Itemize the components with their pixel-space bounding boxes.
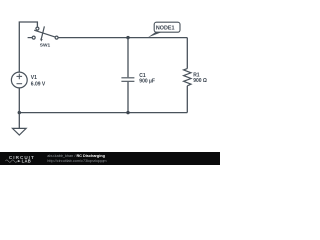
svg-text:http://circuitlab.com/c73kqnzk: http://circuitlab.com/c73kqnzkqqqm — [47, 159, 106, 163]
node NODE1 box — [154, 22, 180, 32]
resistor R1 bottom lead — [186, 86, 188, 113]
wire V1+ to SW1 throw1 — [19, 22, 37, 72]
footer bar — [0, 152, 220, 165]
switch SW1 — [28, 26, 58, 41]
junction dot at V1- / ground — [18, 111, 21, 114]
capacitor C1 top lead — [127, 38, 129, 78]
svg-text:abu.kabir_khan / RC Dischargin: abu.kabir_khan / RC Discharging — [47, 154, 105, 158]
svg-text:900 µF: 900 µF — [139, 79, 155, 85]
SW1 actuation arrow — [41, 26, 44, 39]
wire V1- to ground — [18, 88, 20, 129]
SW1 throw2 stub — [28, 37, 32, 39]
CircuitLab logo: arrow — [18, 160, 21, 162]
wire SW1 common to node1 top rail — [58, 37, 187, 39]
junction dot at C1 bottom — [126, 111, 129, 114]
SW1 throw1 terminal — [36, 27, 39, 30]
SW1 lever — [34, 30, 55, 37]
capacitor C1 plates — [121, 78, 134, 82]
svg-text:LAB: LAB — [22, 159, 32, 164]
CircuitLab logo: sine squiggle — [5, 160, 17, 162]
V1 plus sign — [17, 74, 23, 80]
resistor R1 top lead — [186, 38, 188, 69]
capacitor C1 bottom lead — [127, 82, 129, 113]
resistor R1 zigzag — [184, 69, 191, 86]
svg-text:NODE1: NODE1 — [156, 26, 175, 32]
svg-text:900 Ω: 900 Ω — [193, 78, 207, 84]
svg-text:6.09 V: 6.09 V — [31, 82, 46, 88]
SW1 common terminal — [55, 36, 58, 39]
ground symbol — [13, 128, 27, 135]
voltage source V1 body — [11, 72, 27, 88]
svg-text:V1: V1 — [31, 75, 37, 81]
junction dot at NODE1/C1 top — [126, 36, 129, 39]
bottom wire R1 to V1- — [19, 112, 187, 114]
SW1 throw2 terminal — [32, 36, 35, 39]
node NODE1 pointer — [148, 32, 163, 38]
svg-text:SW1: SW1 — [40, 42, 51, 48]
V1 minus sign — [17, 83, 23, 85]
